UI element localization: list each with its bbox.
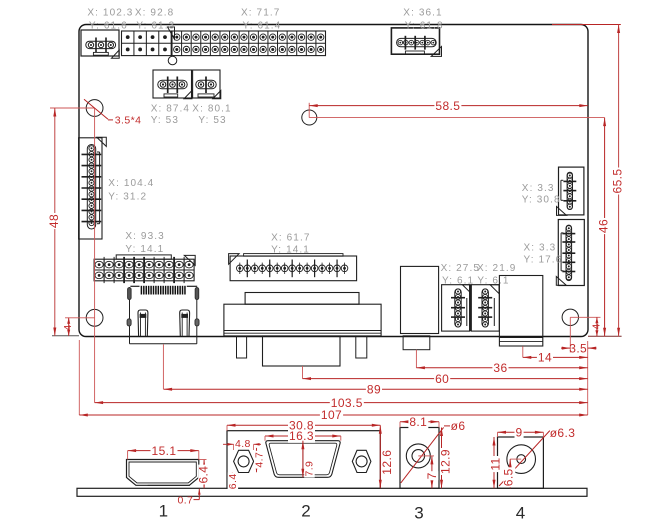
svg-text:Y: 6.1: Y: 6.1 [477, 275, 509, 286]
svg-text:4.8: 4.8 [235, 438, 251, 450]
svg-text:4: 4 [62, 324, 74, 330]
svg-text:X: 93.3: X: 93.3 [125, 231, 164, 242]
svg-text:X: 102.3: X: 102.3 [87, 8, 133, 19]
svg-text:107: 107 [321, 408, 342, 422]
svg-text:6.4: 6.4 [227, 473, 239, 489]
svg-text:Y: 53: Y: 53 [151, 115, 179, 126]
svg-text:48: 48 [47, 214, 61, 228]
svg-text:X: 71.7: X: 71.7 [241, 8, 280, 19]
svg-text:3: 3 [414, 503, 423, 522]
svg-text:46: 46 [597, 219, 611, 233]
svg-text:Y: 61.8: Y: 61.8 [405, 21, 444, 32]
svg-text:Y: 61.4: Y: 61.4 [243, 21, 282, 32]
svg-text:0.7: 0.7 [178, 494, 194, 506]
svg-text:Y: 31.2: Y: 31.2 [108, 191, 147, 202]
svg-text:Y: 61.3: Y: 61.3 [136, 21, 175, 32]
svg-text:60: 60 [435, 372, 449, 386]
svg-text:14: 14 [538, 351, 552, 365]
svg-text:X: 104.4: X: 104.4 [108, 178, 154, 189]
svg-text:1: 1 [159, 501, 168, 520]
svg-text:4: 4 [516, 503, 525, 522]
svg-text:Y: 17.6: Y: 17.6 [524, 254, 563, 265]
svg-text:58.5: 58.5 [435, 99, 460, 113]
svg-text:X: 36.1: X: 36.1 [403, 8, 442, 19]
svg-text:15.1: 15.1 [152, 444, 177, 458]
svg-text:36: 36 [493, 361, 507, 375]
svg-text:X: 87.4: X: 87.4 [151, 104, 190, 115]
svg-text:7: 7 [425, 472, 439, 479]
svg-text:Y: 61.6: Y: 61.6 [89, 21, 128, 32]
svg-text:16.3: 16.3 [289, 429, 314, 443]
svg-text:6.4: 6.4 [197, 466, 211, 484]
svg-text:89: 89 [367, 383, 381, 397]
svg-text:4.7: 4.7 [253, 452, 265, 468]
svg-text:4: 4 [590, 323, 602, 329]
svg-text:Y: 6.1: Y: 6.1 [442, 275, 474, 286]
svg-text:7.9: 7.9 [303, 461, 315, 477]
svg-text:X: 80.1: X: 80.1 [192, 104, 231, 115]
svg-text:Y: 14.1: Y: 14.1 [125, 244, 164, 255]
svg-text:Y: 53: Y: 53 [198, 115, 226, 126]
svg-text:2: 2 [301, 501, 310, 520]
svg-text:65.5: 65.5 [610, 169, 624, 194]
svg-text:X: 27.5: X: 27.5 [441, 263, 480, 274]
svg-text:ø6.3: ø6.3 [550, 426, 576, 440]
svg-text:12.6: 12.6 [380, 450, 394, 475]
svg-text:9: 9 [515, 425, 522, 439]
svg-text:ø6: ø6 [451, 419, 466, 433]
svg-text:11: 11 [489, 457, 503, 470]
svg-text:12.9: 12.9 [439, 449, 453, 474]
svg-text:Y: 14.1: Y: 14.1 [271, 244, 310, 255]
svg-text:Y: 30.8: Y: 30.8 [522, 195, 561, 206]
svg-text:6.5: 6.5 [502, 468, 516, 486]
svg-text:X: 61.7: X: 61.7 [271, 233, 310, 244]
svg-text:X: 92.8: X: 92.8 [135, 8, 174, 19]
svg-text:8.1: 8.1 [409, 415, 427, 429]
svg-text:X: 3.3: X: 3.3 [522, 183, 555, 194]
svg-text:X: 3.3: X: 3.3 [524, 243, 557, 254]
svg-text:3.5: 3.5 [569, 341, 587, 355]
svg-text:3.5*4: 3.5*4 [115, 115, 142, 127]
svg-text:X: 21.9: X: 21.9 [477, 263, 516, 274]
